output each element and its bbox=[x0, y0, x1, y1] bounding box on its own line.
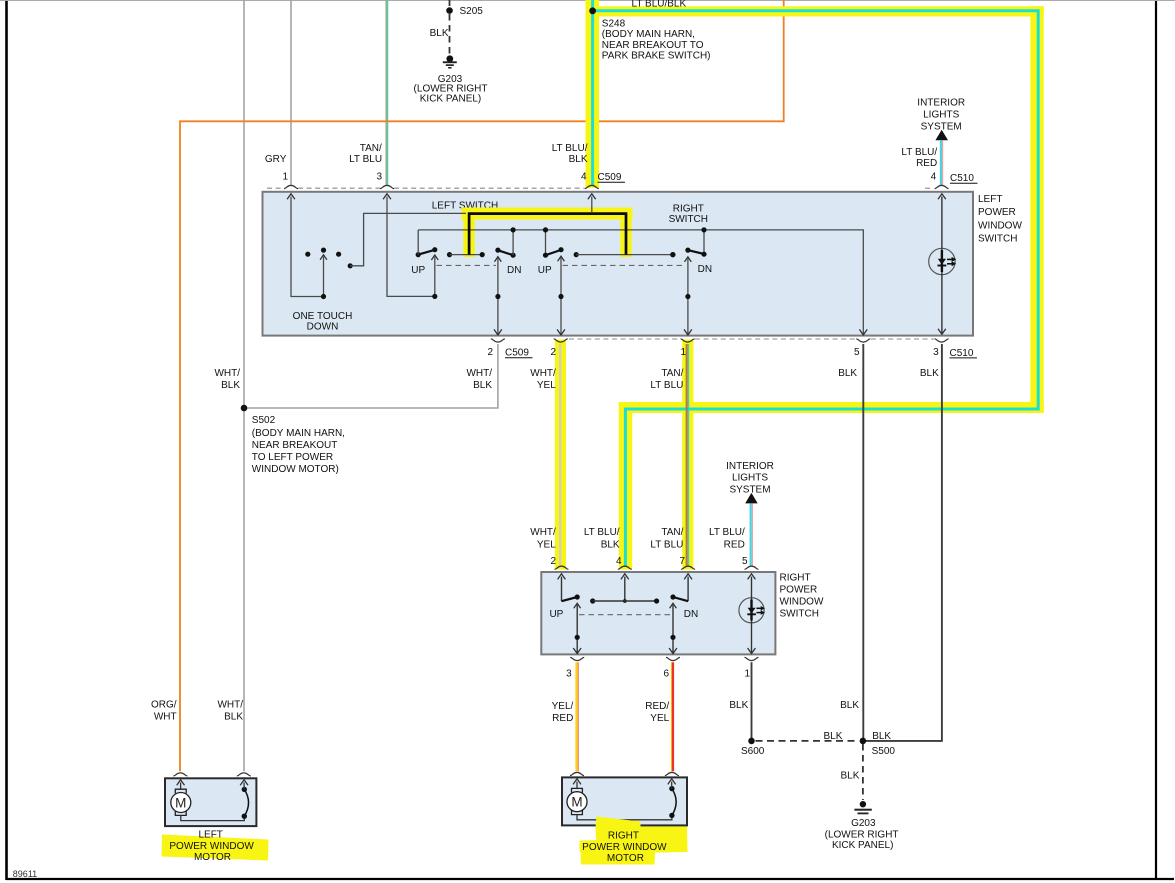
svg-text:YEL: YEL bbox=[537, 380, 556, 391]
label TAN/LT BLU (right switch pin 7) bbox=[650, 527, 683, 551]
svg-text:SWITCH: SWITCH bbox=[978, 234, 1017, 245]
label TAN/LT BLU (pin 1) bbox=[650, 368, 683, 391]
svg-text:ONE TOUCH: ONE TOUCH bbox=[293, 311, 353, 322]
left power window motor body bbox=[165, 778, 256, 826]
splice S248 bbox=[589, 7, 596, 14]
svg-text:UP: UP bbox=[411, 265, 425, 276]
svg-text:DN: DN bbox=[698, 264, 712, 275]
label RIGHT SWITCH (inside box) bbox=[669, 203, 708, 224]
wire WHT/BLK from top of page down to splice S502 and on to left motor bbox=[243, 0, 245, 771]
svg-text:PARK BRAKE SWITCH): PARK BRAKE SWITCH) bbox=[602, 50, 711, 61]
svg-text:S500: S500 bbox=[872, 746, 896, 757]
connector name C510 (top) bbox=[950, 173, 978, 184]
svg-text:GRY: GRY bbox=[265, 154, 287, 165]
svg-text:LEFT: LEFT bbox=[978, 194, 1002, 205]
svg-text:WHT/: WHT/ bbox=[530, 368, 556, 379]
svg-text:2: 2 bbox=[550, 556, 556, 567]
one-touch switch common arm (arrow up) bbox=[320, 255, 327, 299]
right power window switch connector arcs (bottom) bbox=[570, 657, 758, 660]
label WHT/BLK (S502 wire) bbox=[214, 368, 240, 391]
highlight band on RIGHT POWER WINDOW MOTOR label bbox=[580, 817, 688, 865]
svg-text:4: 4 bbox=[616, 556, 622, 567]
svg-text:BLK: BLK bbox=[920, 368, 939, 379]
svg-text:S248: S248 bbox=[602, 19, 626, 30]
off-page arrow to interior lights system (middle) bbox=[745, 493, 758, 504]
right switch UP toggle (pin 2 blade to common) bbox=[558, 574, 582, 654]
svg-text:POWER WINDOW: POWER WINDOW bbox=[582, 842, 667, 853]
label WHT/BLK (left motor) bbox=[217, 700, 243, 723]
pin 4 wire inside right switch down to bus bbox=[621, 574, 629, 603]
svg-text:UP: UP bbox=[538, 265, 552, 276]
svg-text:WINDOW: WINDOW bbox=[780, 596, 824, 607]
svg-text:5: 5 bbox=[854, 347, 860, 358]
highlight band on LT BLU/BLK wire from S248 to right power window switch pin 4 bbox=[586, 0, 1044, 570]
left motor internal wire from M to reverse contact bbox=[181, 815, 245, 820]
svg-text:RIGHT: RIGHT bbox=[608, 830, 639, 841]
svg-text:SYSTEM: SYSTEM bbox=[729, 485, 770, 496]
wire ORG/WHT from top edge down, across, and down left side to left motor bbox=[180, 0, 784, 771]
wire BLK dashed from top to splice S205 bbox=[449, 0, 451, 7]
svg-text:MOTOR: MOTOR bbox=[194, 852, 231, 863]
svg-text:2: 2 bbox=[550, 347, 556, 358]
left motor pin 1 arrow bbox=[177, 780, 185, 790]
right power window switch body bbox=[541, 572, 775, 654]
svg-text:(LOWER RIGHT: (LOWER RIGHT bbox=[825, 830, 899, 841]
svg-text:BLK: BLK bbox=[838, 368, 857, 379]
right motor internal wire from M to reverse contact bbox=[577, 815, 672, 820]
svg-text:TO LEFT POWER: TO LEFT POWER bbox=[252, 452, 333, 463]
label LT BLU/RED (C510 pin 4) bbox=[901, 147, 937, 169]
label G203 (LOWER RIGHT KICK PANEL) bottom bbox=[825, 818, 899, 851]
wire from one-touch right contact up to jumper start bbox=[348, 213, 466, 268]
wire TAN/LT BLU from C509 pin 1 down to right switch pin 7 bbox=[687, 344, 689, 566]
svg-text:WHT/: WHT/ bbox=[530, 527, 556, 538]
svg-text:S205: S205 bbox=[460, 6, 484, 17]
right power window switch connector arcs (top) bbox=[555, 566, 759, 569]
svg-text:(BODY MAIN HARN,: (BODY MAIN HARN, bbox=[252, 428, 345, 439]
left motor M symbol bbox=[171, 789, 191, 815]
pin 1 wire inside box: up-arrow and run to one-touch switch common bbox=[287, 194, 323, 297]
connector C509 pin 1 arc bbox=[284, 185, 298, 188]
svg-text:4: 4 bbox=[931, 172, 937, 183]
highlight band on TAN/LT BLU wire (left switch pin 1 to right switch pin 7) bbox=[682, 340, 693, 570]
wire RED/YEL from right switch pin 6 to right motor bbox=[672, 662, 674, 771]
jumper contact row segment B (dots and wire) bbox=[574, 252, 676, 257]
svg-text:UP: UP bbox=[549, 609, 563, 620]
svg-text:ORG/: ORG/ bbox=[151, 700, 177, 711]
svg-text:WHT: WHT bbox=[154, 712, 177, 723]
splice S502 bbox=[241, 405, 248, 412]
pin number 3 and connector name C510 (bottom) bbox=[933, 347, 977, 359]
svg-text:BLK: BLK bbox=[473, 380, 492, 391]
svg-text:LT BLU/BLK: LT BLU/BLK bbox=[632, 0, 687, 10]
svg-text:RED: RED bbox=[916, 158, 937, 169]
svg-text:POWER: POWER bbox=[978, 207, 1016, 218]
right power window motor body bbox=[562, 777, 687, 825]
svg-text:C510: C510 bbox=[950, 173, 974, 184]
left power window motor connector arcs bbox=[173, 773, 250, 776]
highlight band on internal jumper wire (left switch) bbox=[462, 208, 633, 258]
internal jumper wire (highlighted black) bbox=[469, 214, 626, 255]
svg-text:NEAR BREAKOUT: NEAR BREAKOUT bbox=[252, 440, 338, 451]
right motor pin 2 arrow bbox=[668, 779, 676, 789]
LED indicator in left power window switch bbox=[929, 194, 957, 335]
splice S500 bbox=[860, 738, 867, 745]
pin 4 wire inside box: up-arrow to jumper bbox=[588, 194, 596, 213]
label LEFT POWER WINDOW SWITCH bbox=[978, 194, 1022, 244]
svg-text:RED: RED bbox=[724, 540, 745, 551]
svg-text:LT BLU/: LT BLU/ bbox=[901, 147, 937, 158]
connector C509 pin 4 arc bbox=[585, 185, 599, 188]
label INTERIOR LIGHTS SYSTEM (top right) bbox=[917, 98, 965, 133]
svg-text:BLK: BLK bbox=[224, 712, 243, 723]
svg-text:LT BLU: LT BLU bbox=[349, 154, 382, 165]
svg-text:BLK: BLK bbox=[729, 700, 748, 711]
svg-text:(BODY MAIN HARN,: (BODY MAIN HARN, bbox=[602, 29, 695, 40]
mechanical link dashed line (left switch) bbox=[437, 264, 497, 266]
label WHT/YEL (right switch pin 2) bbox=[530, 527, 556, 551]
svg-text:BLK: BLK bbox=[221, 380, 240, 391]
left switch UP toggle (common arrow, pivot, blade, contact) bbox=[416, 230, 439, 299]
svg-text:RIGHT: RIGHT bbox=[673, 203, 704, 214]
label YEL/RED bbox=[552, 701, 574, 724]
wire GRY from top of page to C509 pin 1 bbox=[290, 0, 292, 185]
svg-text:YEL/: YEL/ bbox=[552, 701, 574, 712]
svg-text:M: M bbox=[175, 796, 186, 811]
svg-text:MOTOR: MOTOR bbox=[607, 853, 644, 864]
svg-text:89611: 89611 bbox=[13, 869, 37, 879]
highlight band on WHT/YEL wire (left switch pin 2 to right switch pin 2) bbox=[555, 340, 566, 570]
splice S600 bbox=[748, 738, 755, 745]
svg-text:1: 1 bbox=[680, 347, 686, 358]
wire YEL/RED from right switch pin 3 to right motor bbox=[577, 662, 579, 771]
label TAN/LT BLU bbox=[349, 143, 382, 165]
connector C509 pin 1 arc (bottom) bbox=[681, 339, 695, 342]
wire BLK from C510 pin 3 down and left to splice S500 bbox=[866, 344, 942, 741]
svg-text:TAN/: TAN/ bbox=[661, 527, 683, 538]
down-arrow at pin 5 exit bbox=[859, 329, 867, 335]
svg-text:WINDOW MOTOR): WINDOW MOTOR) bbox=[252, 464, 339, 475]
right switch DN toggle (pin 7 blade to common) bbox=[669, 574, 692, 654]
wire BLK from right switch pin 1 to splice S600 bbox=[751, 662, 753, 741]
svg-text:S600: S600 bbox=[741, 746, 765, 757]
svg-text:INTERIOR: INTERIOR bbox=[917, 98, 965, 109]
label ONE TOUCH DOWN bbox=[293, 311, 353, 333]
svg-text:POWER: POWER bbox=[780, 584, 818, 595]
label ORG/WHT bbox=[151, 700, 177, 723]
svg-text:BLK: BLK bbox=[601, 540, 620, 551]
label WHT/BLK (pin 2) bbox=[466, 368, 492, 391]
svg-text:4: 4 bbox=[581, 172, 587, 183]
svg-text:SWITCH: SWITCH bbox=[780, 608, 819, 619]
svg-text:LT BLU/: LT BLU/ bbox=[709, 527, 745, 538]
right switch DN toggle (in left box) bbox=[670, 227, 706, 335]
svg-text:LIGHTS: LIGHTS bbox=[732, 473, 768, 484]
label INTERIOR LIGHTS SYSTEM (middle) bbox=[726, 461, 774, 496]
svg-text:M: M bbox=[571, 795, 582, 810]
wire BLK dashed from S205 to ground G203 bbox=[449, 14, 451, 55]
wire TAN/LT BLU from top of page to C509 pin 3 bbox=[386, 0, 387, 185]
svg-text:KICK PANEL): KICK PANEL) bbox=[832, 840, 894, 851]
label LT BLU/BLK (right switch pin 4) bbox=[584, 527, 620, 551]
svg-text:BLK: BLK bbox=[840, 771, 859, 782]
svg-text:TAN/: TAN/ bbox=[661, 368, 683, 379]
svg-text:1: 1 bbox=[282, 172, 288, 183]
svg-text:3: 3 bbox=[933, 347, 939, 358]
svg-text:RED: RED bbox=[552, 713, 573, 724]
svg-text:5: 5 bbox=[742, 556, 748, 567]
svg-text:KICK PANEL): KICK PANEL) bbox=[420, 93, 482, 104]
right power window motor connector arcs bbox=[570, 772, 679, 775]
svg-text:C509: C509 bbox=[505, 348, 529, 359]
ground symbol G203 (bottom) bbox=[854, 801, 871, 814]
svg-text:6: 6 bbox=[663, 668, 669, 679]
splice S205 bbox=[446, 7, 453, 14]
internal bus wire between UP and DN contacts (right switch) bbox=[590, 598, 659, 603]
svg-text:1: 1 bbox=[744, 668, 750, 679]
label RED/YEL bbox=[645, 701, 669, 724]
wire BLK dashed from S600 to S500 bbox=[756, 740, 860, 742]
svg-text:POWER WINDOW: POWER WINDOW bbox=[169, 841, 254, 852]
pin 3 wire inside box: up-arrow and run to left switch UP common bbox=[383, 194, 435, 297]
label LT BLU/RED (right switch pin 5) bbox=[709, 527, 745, 551]
wire WHT/YEL from C509 pin 2 down to right switch pin 2 bbox=[559, 344, 561, 566]
highlight band on LEFT POWER WINDOW MOTOR label bbox=[162, 835, 269, 861]
svg-text:SWITCH: SWITCH bbox=[669, 214, 708, 225]
label WHT/YEL (pin 2 second) bbox=[530, 368, 556, 391]
wire LT BLU/BLK long run: S248 right, down right side, left at mid, down to right switch pin 4 bbox=[593, 11, 1039, 566]
svg-text:NEAR BREAKOUT TO: NEAR BREAKOUT TO bbox=[602, 40, 704, 51]
svg-text:S502: S502 bbox=[252, 415, 276, 426]
connector C509/C510 dashed line (bottom of left power window switch) bbox=[569, 338, 934, 340]
svg-text:INTERIOR: INTERIOR bbox=[726, 461, 774, 472]
internal bus wire from left switch UP contact across to pin 5 exit bbox=[418, 230, 863, 334]
svg-text:TAN/: TAN/ bbox=[360, 143, 382, 154]
svg-text:YEL: YEL bbox=[650, 713, 669, 724]
connector C509 pin 3 arc bbox=[380, 185, 394, 188]
wire BLK dashed from S500 down to ground G203 bbox=[862, 744, 864, 800]
svg-text:LT BLU/: LT BLU/ bbox=[584, 527, 620, 538]
right switch UP toggle bbox=[543, 227, 565, 335]
label RIGHT POWER WINDOW MOTOR bbox=[582, 830, 667, 864]
svg-text:LT BLU: LT BLU bbox=[650, 380, 683, 391]
left motor reversing arc bbox=[242, 787, 249, 819]
svg-text:LT BLU: LT BLU bbox=[650, 540, 683, 551]
svg-text:DN: DN bbox=[507, 265, 521, 276]
connector name C509 (top) bbox=[598, 172, 626, 183]
right motor pin 1 arrow bbox=[573, 779, 581, 789]
off-page arrow to interior lights system (top right) bbox=[935, 130, 948, 141]
svg-text:WHT/: WHT/ bbox=[214, 368, 240, 379]
svg-text:DN: DN bbox=[684, 609, 698, 620]
right motor M symbol bbox=[567, 788, 587, 814]
svg-text:RED/: RED/ bbox=[645, 701, 669, 712]
left power window switch body bbox=[263, 192, 974, 336]
label LEFT POWER WINDOW MOTOR bbox=[169, 829, 254, 863]
right motor reversing arc bbox=[669, 786, 676, 818]
svg-text:BLK: BLK bbox=[840, 700, 859, 711]
svg-text:C509: C509 bbox=[598, 172, 622, 183]
wire LT BLU/RED from interior lights arrow to C510 pin 4 bbox=[941, 140, 943, 185]
connector C509 pin 2 arc (left switch DN) bbox=[491, 339, 505, 342]
svg-text:BLK: BLK bbox=[430, 28, 449, 39]
svg-text:BLK: BLK bbox=[872, 731, 891, 742]
svg-text:RIGHT: RIGHT bbox=[780, 572, 811, 583]
svg-text:3: 3 bbox=[566, 668, 572, 679]
connector C510 pin 5 arc bbox=[856, 339, 870, 342]
svg-text:WINDOW: WINDOW bbox=[978, 220, 1022, 231]
label LT BLU/BLK (pin 4) bbox=[552, 143, 588, 165]
mechanical link dashed line (right switch in left box) bbox=[563, 264, 687, 266]
jumper contact row segment A (dots and wire) bbox=[447, 252, 485, 257]
label S248 (BODY MAIN HARN, NEAR BREAKOUT TO PARK BRAKE SWITCH) bbox=[602, 19, 711, 62]
svg-text:G203: G203 bbox=[851, 818, 876, 829]
svg-text:LIGHTS: LIGHTS bbox=[923, 110, 959, 121]
ground symbol G203 (top) bbox=[443, 55, 457, 68]
svg-text:BLK: BLK bbox=[823, 731, 842, 742]
connector C510 pin 4 arc and dash bbox=[925, 185, 949, 188]
one-touch switch pivot and contact dots bbox=[305, 248, 341, 257]
svg-text:LEFT: LEFT bbox=[198, 829, 222, 840]
wire BLK from C510 pin 5 down to splice S500 bbox=[862, 344, 864, 741]
wire LT BLU/RED from interior lights arrow to right switch pin 5 bbox=[751, 503, 753, 565]
svg-text:YEL: YEL bbox=[537, 540, 556, 551]
wire LT BLU/BLK vertical from top edge through S248 to C509 pin 4 bbox=[591, 0, 594, 185]
svg-text:C510: C510 bbox=[950, 348, 974, 359]
connector C509 dashed line (top of left power window switch) bbox=[267, 187, 585, 189]
svg-text:3: 3 bbox=[376, 172, 382, 183]
mechanical link dashed line (right power window switch) bbox=[579, 614, 671, 616]
label G203 (LOWER RIGHT KICK PANEL) bbox=[414, 74, 488, 104]
svg-text:WHT/: WHT/ bbox=[466, 368, 492, 379]
LED indicator in right power window switch bbox=[739, 574, 765, 654]
svg-text:DOWN: DOWN bbox=[307, 322, 339, 333]
connector C510 pin 3 arc bbox=[935, 339, 949, 342]
label RIGHT POWER WINDOW SWITCH bbox=[780, 572, 824, 619]
left motor pin 2 arrow bbox=[240, 780, 248, 790]
svg-text:BLK: BLK bbox=[569, 154, 588, 165]
svg-text:7: 7 bbox=[679, 556, 685, 567]
svg-text:LT BLU/: LT BLU/ bbox=[552, 143, 588, 154]
wire WHT/BLK from pin 2 down and left to splice S502 bbox=[244, 344, 498, 408]
connector C509 pin 2 arc (right switch UP) bbox=[554, 339, 568, 342]
svg-text:2: 2 bbox=[487, 347, 493, 358]
left switch DN toggle bbox=[494, 227, 516, 335]
pin number 2 and connector name C509 (bottom) bbox=[487, 347, 532, 358]
svg-text:WHT/: WHT/ bbox=[217, 700, 243, 711]
label S502 (BODY MAIN HARN, NEAR BREAKOUT TO LEFT POWER WINDOW MOTOR) bbox=[252, 415, 345, 475]
